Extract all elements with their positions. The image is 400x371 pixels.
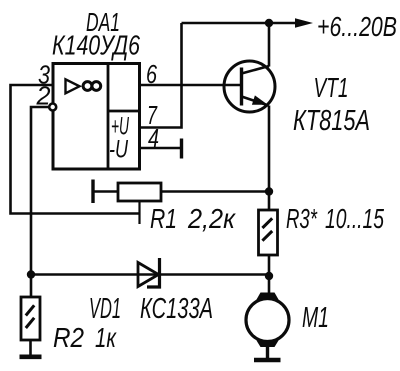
svg-text:2: 2 bbox=[36, 81, 51, 111]
svg-text:КС133А: КС133А bbox=[140, 293, 213, 325]
svg-text:2,2к: 2,2к bbox=[187, 203, 236, 234]
svg-text:КТ815А: КТ815А bbox=[293, 105, 370, 137]
svg-text:M1: M1 bbox=[302, 302, 329, 334]
svg-text:6: 6 bbox=[146, 59, 157, 89]
svg-text:VT1: VT1 bbox=[314, 72, 349, 103]
svg-text:VD1: VD1 bbox=[89, 293, 121, 325]
svg-text:1к: 1к bbox=[95, 322, 117, 353]
svg-text:10...15: 10...15 bbox=[325, 203, 384, 234]
svg-text:К140УД6: К140УД6 bbox=[52, 30, 140, 61]
svg-text:4: 4 bbox=[148, 123, 159, 153]
svg-text:R1: R1 bbox=[150, 203, 177, 234]
svg-text:R3*: R3* bbox=[286, 203, 318, 234]
svg-text:+6...20В: +6...20В bbox=[317, 11, 397, 42]
svg-text:-U: -U bbox=[109, 136, 129, 164]
svg-text:R2: R2 bbox=[53, 322, 84, 353]
